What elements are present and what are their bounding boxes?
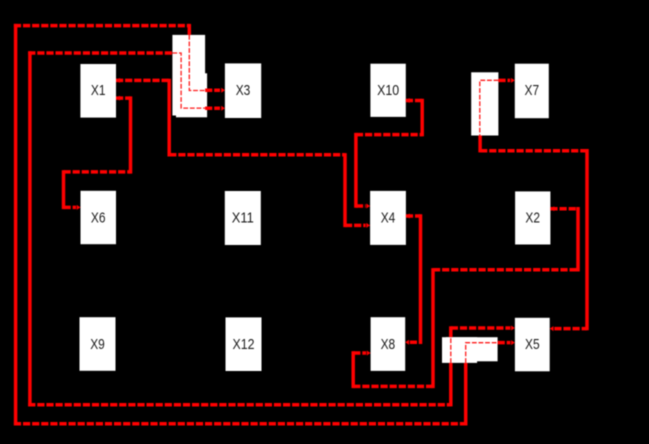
arrowhead at X10 pin <box>406 98 410 103</box>
arrowhead at X1 pin2 <box>116 96 120 101</box>
wire bottom inner horizontal y=404.7 <box>28 403 451 407</box>
arrowhead at X8 right pin <box>405 340 409 345</box>
svg-text:X1: X1 <box>91 82 106 99</box>
wire corner drop into unlabeled box <box>188 24 192 35</box>
wire top horizontal y=25.6 <box>14 24 189 28</box>
wire vertical x=480.1 below box <box>478 136 482 153</box>
component (unlabeled) behind X3 area, lower-right offset <box>176 73 207 117</box>
component X9 <box>80 317 116 371</box>
wire stub into X4 pin1 <box>356 204 366 208</box>
wire stub into X8 right pin <box>410 340 421 344</box>
component (unlabeled) tall box left of X3 <box>172 35 205 116</box>
svg-text:X2: X2 <box>525 210 540 227</box>
wire vertical up x=450.8 below box <box>449 363 453 407</box>
arrowhead at X5 pin2 <box>511 340 515 345</box>
component X8 <box>371 317 406 371</box>
arrowhead at X8 left pin <box>367 351 371 356</box>
svg-text:X6: X6 <box>91 209 106 226</box>
component X2 <box>515 191 550 244</box>
wire thin dashed inside box to X3 pin2 level <box>172 53 205 108</box>
svg-text:X8: X8 <box>381 336 396 353</box>
wire stub from X1 pin2 <box>116 96 131 100</box>
wire thin dashed inside box, down then right <box>189 35 205 91</box>
wire vertical x=433 <box>431 268 435 388</box>
arrowhead at X4 right pin <box>406 214 410 219</box>
wire vertical up x=450.8 above box <box>449 326 453 337</box>
arrowhead at X1 pin1 <box>116 78 120 83</box>
svg-text:X7: X7 <box>525 82 540 99</box>
wire thin dashed inside box left of X7 <box>480 80 499 135</box>
wire horizontal y=386.4 <box>353 385 433 389</box>
wire stub into X5 right pin <box>554 327 587 331</box>
component X12 <box>226 317 262 371</box>
wire stub into X5 pin2 <box>498 341 511 345</box>
wire stub from X10 <box>406 99 422 103</box>
arrowhead at X6 pin <box>77 205 81 210</box>
wire stub into X7 <box>498 79 510 83</box>
component X11 <box>225 191 261 245</box>
wire net F: X7 to X5 right pin <box>480 78 587 331</box>
wire net G: X2 to X8 left pin <box>353 206 578 388</box>
arrowhead at X3 pin2 <box>221 106 225 111</box>
svg-text:X4: X4 <box>381 210 396 227</box>
arrowhead at X5 right pin <box>550 326 554 331</box>
wire thin dashed through box to X5 pin2 level <box>466 343 498 363</box>
wire horizontal y=269.8 <box>433 268 578 272</box>
wire right outer vertical x=587 <box>585 149 589 330</box>
component (unlabeled) box left of X7 <box>471 72 498 135</box>
component X4 <box>370 191 406 245</box>
wire left inner vertical x=29.9 <box>28 51 32 406</box>
wire stub into X3 pin2 <box>205 106 220 110</box>
wire vertical x=169.2 <box>167 79 171 157</box>
wire horizontal into X5 pin1 <box>451 326 511 330</box>
wire vertical x=578 <box>576 207 580 272</box>
wire bottom outer horizontal y=423.8 <box>14 422 466 426</box>
wire net E: X10 to X4 pin1 <box>356 98 422 209</box>
svg-text:X11: X11 <box>232 210 254 227</box>
wire vertical x=420.5 <box>419 214 423 344</box>
arrowhead at X3 pin1 <box>221 88 225 93</box>
wire vertical x=355.9 <box>354 133 358 208</box>
wire stub from X1 pin1 <box>116 79 169 83</box>
component X10 <box>370 64 405 117</box>
arrowhead at X4 pin1 <box>366 204 370 209</box>
wire stub from X2 <box>550 207 578 211</box>
wire net H: X4 right pin to X8 right pin <box>405 214 420 345</box>
wire net D: X1 pin2 to X6 <box>64 96 131 210</box>
component (unlabeled) box left of X5, wide part <box>446 337 498 361</box>
wire stub into X6 <box>64 206 77 210</box>
svg-text:X9: X9 <box>90 336 105 353</box>
arrowhead at X5 pin1 <box>511 326 515 331</box>
wire stub into X4 pin2 <box>345 224 366 228</box>
arrowhead at X2 pin <box>550 206 554 211</box>
wire vertical x=422.2 <box>420 99 424 137</box>
wire vertical x=130.5 <box>129 96 133 173</box>
wire horizontal y=134.6 <box>356 133 422 137</box>
wire vertical x=345 <box>343 153 347 227</box>
wire vertical up from bottom line x=465.7 <box>464 363 468 426</box>
wire mid horizontal y=154.8 <box>169 153 345 157</box>
component X5 <box>515 318 550 372</box>
arrowhead at X7 pin <box>511 78 515 83</box>
component X3 <box>225 63 261 118</box>
component X7 <box>515 64 549 118</box>
wire net C: X1 pin1 to X4 pin2 via mid horizontal <box>116 78 370 228</box>
wire stub into X3 pin1 <box>205 89 220 93</box>
wire stub from X4 right <box>406 214 421 218</box>
wire vertical x=63.5 <box>62 170 66 209</box>
component X6 <box>81 191 117 244</box>
component X1 <box>80 64 116 118</box>
wire second horizontal y=53 <box>28 51 173 55</box>
wire vertical x=353.2 <box>351 351 355 388</box>
wire net B: X3 pin2 to X5 pin1, inner loop <box>28 51 515 406</box>
svg-text:X10: X10 <box>377 82 399 99</box>
arrowhead at X4 pin2 <box>366 223 370 228</box>
wire horizontal y=150.7 <box>480 149 587 153</box>
svg-text:X5: X5 <box>525 336 540 353</box>
wire stub into X8 left pin <box>353 351 366 355</box>
svg-text:X3: X3 <box>236 82 251 99</box>
wire horizontal y=171.9 <box>64 170 131 174</box>
wire net A: X3 pin1 to X5 pin2, top-left-bottom loop <box>14 24 515 426</box>
wire thin dashed through box x=450.8 <box>450 337 452 363</box>
svg-text:X12: X12 <box>233 336 255 353</box>
component (unlabeled) box left of X5, lower part <box>442 337 477 363</box>
wire left outer vertical x=15.6 <box>14 24 18 426</box>
